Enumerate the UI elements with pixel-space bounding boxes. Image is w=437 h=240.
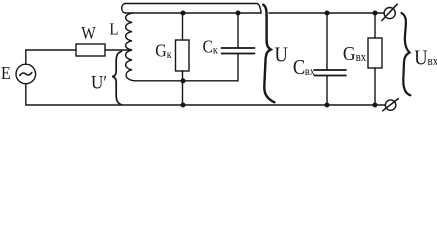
capacitor Ck plates <box>222 47 255 49</box>
conductance Gvx box <box>368 38 382 68</box>
wire U-turn joining rails <box>122 4 126 14</box>
terminal top right <box>384 8 395 19</box>
junction Cvx bottom rail <box>325 103 330 108</box>
source E circle <box>16 64 36 84</box>
junction Gk bottom rail <box>181 103 186 108</box>
brace U <box>263 5 274 103</box>
capacitor Cvx top branch <box>326 13 328 70</box>
conductance Gvx top branch <box>374 13 376 38</box>
wire coil bottom to Ck branch <box>135 54 239 81</box>
junction Cvx top rail <box>325 11 330 16</box>
svg-text:Gк: Gк <box>155 41 172 61</box>
resistor W box <box>76 44 105 56</box>
conductance Gk top branch <box>182 13 184 40</box>
wire W to coil tap <box>105 49 131 51</box>
svg-text:Gвх: Gвх <box>343 43 367 65</box>
terminal bottom right <box>385 100 395 110</box>
junction Gk top rail <box>181 11 186 16</box>
junction Gk tank bottom <box>181 78 186 83</box>
tilde inside source <box>20 72 32 75</box>
conductance Gk bottom branch <box>182 71 184 105</box>
capacitor Ck top branch <box>237 13 239 48</box>
capacitor Cvx plates <box>315 69 347 71</box>
svg-text:Cвх: Cвх <box>293 56 315 79</box>
svg-text:U′: U′ <box>91 71 107 92</box>
svg-text:U: U <box>275 43 288 66</box>
svg-text:Cк: Cк <box>203 37 219 57</box>
junction Gvx bottom rail <box>373 103 378 108</box>
junction Gvx top rail <box>373 11 378 16</box>
inductor L coil <box>126 13 135 81</box>
conductance Gvx bottom branch <box>374 68 376 105</box>
wire E top to W <box>26 50 76 64</box>
brace Uvx <box>402 13 411 95</box>
svg-text:Uвх: Uвх <box>414 46 437 69</box>
svg-text:L: L <box>109 20 118 38</box>
svg-text:E: E <box>1 63 11 83</box>
brace U' <box>112 51 121 105</box>
conductance Gk box <box>176 40 190 71</box>
wire right top rail <box>269 12 384 14</box>
junction Ck top rail <box>236 11 241 16</box>
wire bypass line over brace <box>126 4 262 14</box>
wire tank top rail <box>126 12 262 14</box>
capacitor Cvx bottom branch <box>326 76 328 106</box>
wire E bottom rail <box>26 84 386 105</box>
svg-text:W: W <box>81 23 96 43</box>
